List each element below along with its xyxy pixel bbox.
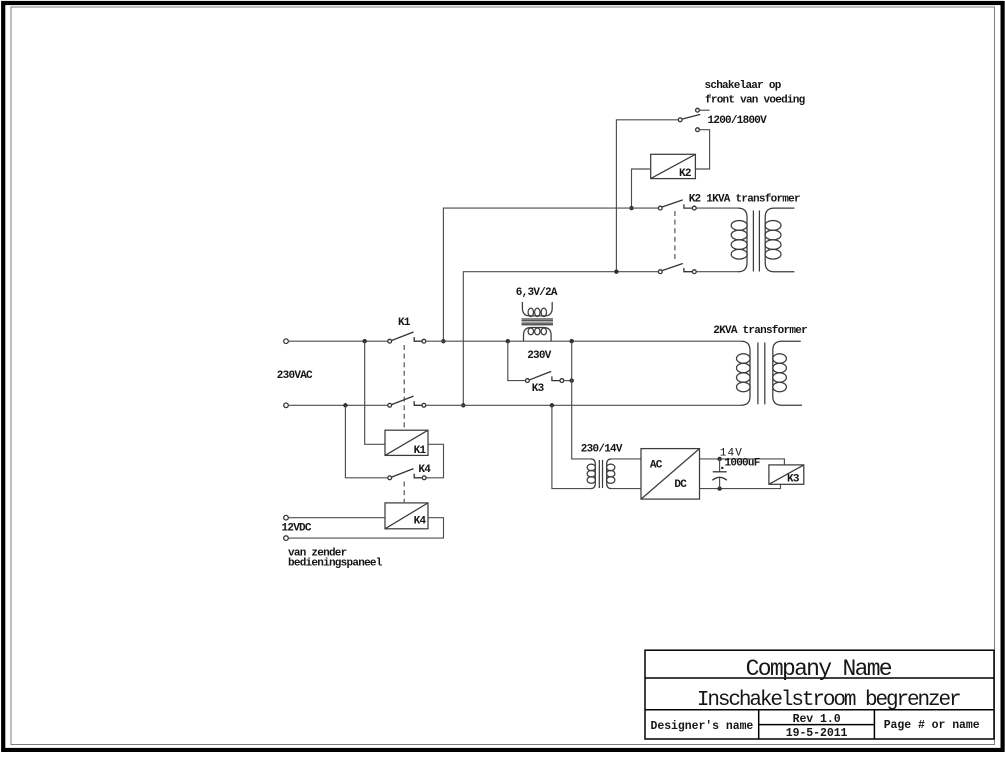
svg-text:Page # or name: Page # or name <box>884 719 980 732</box>
relay coil K1 <box>385 430 428 455</box>
junction <box>550 403 554 407</box>
contact K3 <box>526 379 530 383</box>
terminal 12VDC minus <box>284 536 289 541</box>
wire K4 contact to bottom bus <box>345 405 387 478</box>
svg-text:1200/1800V: 1200/1800V <box>708 115 768 127</box>
wire top contact to vertical drop <box>443 208 658 341</box>
svg-text:2KVA transformer: 2KVA transformer <box>713 325 807 337</box>
junction <box>441 339 445 343</box>
relay coil K3 <box>769 465 804 484</box>
contact K2 bottom <box>658 270 662 274</box>
svg-text:K1: K1 <box>398 317 411 329</box>
contact K1 bottom <box>388 403 392 407</box>
svg-text:1000uF: 1000uF <box>725 458 760 470</box>
dashed link K4 <box>403 482 405 503</box>
transformer T2 secondary <box>773 341 802 405</box>
wire switch lower contact to K2 coil <box>695 130 709 169</box>
wire top bus to K1 coil <box>365 341 385 444</box>
switch S1 selector <box>696 108 700 112</box>
dashed link K2 contacts <box>674 211 676 262</box>
wire top bus left <box>288 340 387 342</box>
wire 230/14V primary bottom to bottom bus <box>552 405 590 488</box>
junction <box>629 206 633 210</box>
svg-text:K1: K1 <box>414 445 427 457</box>
wire K2 coil left to top contact wire <box>632 169 651 208</box>
contact K2 top <box>658 206 662 210</box>
junction <box>717 457 721 461</box>
junction <box>570 339 574 343</box>
transformer T3 6,3V primary <box>522 302 552 316</box>
transformer T4 secondary <box>607 459 612 489</box>
wire T4 secondary to rectifier <box>612 458 641 460</box>
transformer T3 core <box>522 318 554 320</box>
wire vertical to 230/14V primary top <box>572 341 591 459</box>
wire bottom contact to transformer <box>696 271 738 273</box>
svg-text:DC: DC <box>674 479 687 491</box>
svg-text:230/14V: 230/14V <box>581 444 623 456</box>
junction <box>363 339 367 343</box>
transformer T4 core <box>598 460 600 488</box>
transformer T3 secondary <box>524 328 552 342</box>
junction <box>570 378 574 382</box>
transformer T4 230/14V primary <box>590 459 595 489</box>
svg-text:Designer's name: Designer's name <box>651 720 754 733</box>
title block frame <box>645 650 994 739</box>
wire K4 coil right to 12VDC bottom <box>288 518 443 538</box>
wire switch common to left bus <box>616 120 678 272</box>
junction <box>461 403 465 407</box>
junction <box>717 486 721 490</box>
junction <box>614 270 618 274</box>
wire bottom bus right <box>426 404 741 406</box>
svg-text:Inschakelstroom begrenzer: Inschakelstroom begrenzer <box>697 689 960 712</box>
wire 12VDC top to K4 coil <box>288 517 385 519</box>
wire K3 contact to vertical <box>564 380 572 382</box>
dashed link K1 contacts <box>403 345 405 430</box>
svg-text:schakelaar op: schakelaar op <box>705 80 782 92</box>
wire top bus right <box>426 340 741 342</box>
svg-text:K3: K3 <box>532 383 545 395</box>
wire rectifier plus to K3 coil <box>700 459 785 465</box>
wire K3 branch left <box>508 341 525 380</box>
svg-text:19-5-2011: 19-5-2011 <box>786 727 848 740</box>
terminal 12VDC plus <box>284 515 289 520</box>
svg-text:front van voeding: front van voeding <box>705 95 805 107</box>
transformer T1 1KVA primary <box>738 208 747 272</box>
transformer T2 core <box>757 343 759 405</box>
svg-text:bedieningspaneel: bedieningspaneel <box>288 557 383 569</box>
svg-text:230VAC: 230VAC <box>277 370 313 382</box>
relay coil K2 <box>651 154 696 178</box>
terminal 230VAC neutral <box>284 403 289 408</box>
svg-text:Rev 1.0: Rev 1.0 <box>793 713 841 726</box>
wire bottom bus left <box>288 404 387 406</box>
junction <box>343 403 347 407</box>
svg-text:K4: K4 <box>418 464 431 476</box>
svg-text:K2: K2 <box>679 168 691 180</box>
svg-text:12VDC: 12VDC <box>282 522 312 534</box>
svg-text:230V: 230V <box>527 350 552 362</box>
wire bottom contact to vertical drop <box>463 272 658 406</box>
transformer T2 2KVA primary <box>741 341 750 405</box>
transformer T1 core <box>752 211 754 272</box>
rectifier U1 AC/DC <box>641 449 700 500</box>
relay coil K4 <box>385 503 428 529</box>
wire contact to transformer <box>696 207 738 209</box>
svg-text:Company Name: Company Name <box>746 656 892 682</box>
capacitor C1 1000uF <box>719 459 721 472</box>
svg-text:K3: K3 <box>787 474 800 486</box>
svg-text:K4: K4 <box>414 515 427 527</box>
transformer T1 secondary <box>765 208 794 272</box>
wire K1 coil right to K4 contact <box>427 444 444 478</box>
wire rectifier minus to K3 coil <box>700 484 781 488</box>
terminal 230VAC line <box>284 339 289 344</box>
junction <box>506 339 510 343</box>
svg-text:AC: AC <box>650 460 663 472</box>
svg-text:6,3V/2A: 6,3V/2A <box>516 287 558 299</box>
contact K1 top <box>388 339 392 343</box>
svg-text:K2 1KVA transformer: K2 1KVA transformer <box>689 193 800 205</box>
contact K4 <box>388 476 392 480</box>
